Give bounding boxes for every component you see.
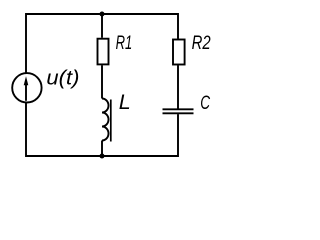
svg-text:R1: R1 bbox=[116, 33, 133, 54]
svg-text:C: C bbox=[200, 92, 210, 114]
svg-text:L: L bbox=[119, 90, 131, 114]
svg-text:u(t): u(t) bbox=[46, 68, 79, 90]
svg-text:R2: R2 bbox=[192, 33, 211, 54]
